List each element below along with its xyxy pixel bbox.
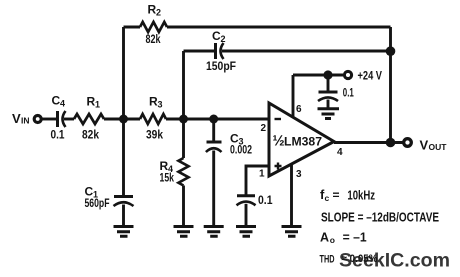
svg-text:SLOPE = –12dB/OCTAVE: SLOPE = –12dB/OCTAVE (321, 211, 439, 225)
svg-text:560pF: 560pF (85, 196, 110, 210)
svg-text:2: 2 (261, 123, 267, 134)
svg-text:A: A (320, 231, 329, 245)
svg-text:150pF: 150pF (206, 59, 236, 73)
capacitor C1 (114, 195, 133, 198)
note SLOPE (321, 211, 439, 225)
op-amp plus sign (275, 163, 282, 170)
wire op-amp output (334, 141, 403, 144)
svg-text:V: V (420, 138, 429, 153)
wire pin 6 to +24V terminal (293, 74, 343, 77)
ground C6 (318, 109, 340, 119)
wire right vertical (389, 27, 392, 143)
wire R4 to ground (182, 186, 185, 227)
junction C (209, 115, 218, 124)
ground pin 3 (282, 227, 302, 237)
wire C6 to ground (327, 100, 330, 109)
node VIN label (12, 111, 30, 126)
svg-text:6: 6 (296, 104, 302, 115)
resistor R2 (140, 22, 167, 32)
junction D (386, 46, 396, 56)
node VOUT label (420, 138, 448, 153)
capacitor C6 0.1 supply bypass (319, 91, 338, 94)
junction E (323, 70, 332, 79)
svg-text:2: 2 (221, 34, 226, 44)
svg-text:o: o (330, 235, 335, 245)
capacitor C2 (214, 43, 217, 59)
svg-text:82k: 82k (82, 128, 99, 142)
capacitor C4 (56, 111, 59, 127)
wire junction E down to C6 (327, 75, 330, 91)
svg-text:OUT: OUT (429, 142, 448, 152)
svg-text:0.002: 0.002 (230, 143, 252, 157)
ground C1 (114, 227, 134, 237)
wire pin 3 to ground (290, 164, 293, 226)
svg-text:SeekIC.com: SeekIC.com (339, 251, 450, 272)
svg-text:4: 4 (60, 99, 65, 109)
pin 2 label (261, 123, 267, 134)
wire C2 feedback right (222, 50, 391, 53)
note Ao = -1 (320, 231, 367, 246)
resistor R3 (140, 114, 166, 124)
wire top feedback left (124, 26, 141, 29)
resistor R4 (179, 158, 189, 186)
svg-text:LM387: LM387 (284, 135, 322, 149)
op-amp U1 half LM387 (269, 103, 334, 176)
ground C3 (204, 227, 224, 237)
junction B (179, 115, 188, 124)
wire C3 to ground (212, 151, 215, 227)
terminal VIN (34, 116, 41, 123)
pin 6 label (296, 104, 302, 115)
capacitor C3 (207, 141, 222, 144)
terminal +24V (344, 71, 351, 78)
svg-text:=: = (333, 188, 340, 202)
wire junction C down to C3 (212, 119, 215, 142)
junction A (119, 115, 128, 124)
terminal VOUT (404, 139, 412, 147)
junction F (386, 138, 396, 148)
svg-text:82k: 82k (146, 32, 161, 46)
svg-text:39k: 39k (146, 128, 163, 142)
note THD (320, 253, 378, 265)
wire top feedback right (167, 26, 391, 29)
svg-text:0.1: 0.1 (51, 128, 65, 142)
svg-text:2: 2 (156, 8, 161, 18)
resistor R1 (74, 114, 104, 124)
svg-text:THD: THD (320, 253, 335, 265)
svg-text:c: c (325, 193, 330, 203)
svg-text:3: 3 (158, 100, 163, 110)
svg-text:0.1: 0.1 (258, 193, 273, 207)
op-amp minus sign (275, 118, 282, 120)
capacitor C5 0.1 at pin 1 (237, 194, 255, 197)
svg-text:4: 4 (337, 147, 343, 158)
svg-text:0.1: 0.1 (343, 85, 354, 99)
wire pin 1 to bypass cap (246, 166, 269, 195)
wire R3 to op-amp input (166, 118, 269, 121)
svg-text:1: 1 (259, 169, 265, 180)
wire VIN to C4 (42, 118, 56, 121)
svg-text:3: 3 (296, 169, 302, 180)
wire C2 feedback left (184, 50, 216, 53)
wire C4 to R1 (64, 118, 74, 121)
node +24V label (358, 69, 383, 83)
wire C1 to ground (122, 205, 125, 227)
watermark SeekIC.com (339, 251, 450, 272)
svg-text:1: 1 (95, 100, 100, 110)
pin 4 label (337, 147, 343, 158)
ground R4 (174, 227, 194, 237)
wire C2 tap down to main line (182, 51, 185, 119)
wire left vertical (122, 27, 125, 196)
svg-text:= –1: = –1 (343, 231, 367, 245)
wire pin 6 up (292, 75, 295, 117)
svg-text:15k: 15k (160, 170, 175, 184)
wire C5 to ground (245, 204, 248, 226)
ground C5 (236, 227, 256, 237)
svg-text:10kHz: 10kHz (347, 188, 375, 202)
pin 3 label (296, 169, 302, 180)
note fc = 10kHz (320, 187, 375, 203)
svg-text:½: ½ (273, 134, 285, 150)
svg-text:IN: IN (21, 116, 30, 126)
svg-text:+24 V: +24 V (358, 69, 383, 83)
wire R1 to junction A (104, 118, 140, 121)
wire junction B down to R4 (182, 119, 185, 158)
pin 1 label (259, 169, 265, 180)
svg-text:V: V (12, 111, 21, 126)
